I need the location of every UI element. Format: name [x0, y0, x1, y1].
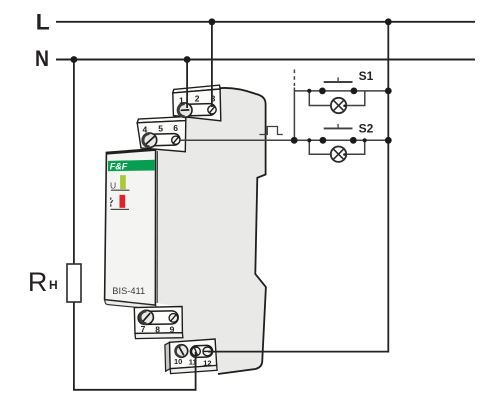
- terminal slot 4-6: [143, 133, 180, 146]
- lamp E2 (S2 indicator): [331, 147, 346, 162]
- green LED bar: [120, 175, 126, 189]
- svg-text:N: N: [35, 46, 49, 71]
- node S2 lamp tap left: [307, 138, 311, 142]
- screw terminal 11: [192, 347, 201, 356]
- junction N to terminal 1 riser: [184, 56, 191, 63]
- wire N down to resistor: [73, 60, 75, 265]
- resistor RH (load): [67, 264, 81, 302]
- terminal block 7-8-9: [134, 307, 183, 339]
- S2 contact node left: [320, 137, 327, 144]
- svg-text:12: 12: [203, 358, 211, 367]
- wire lamp S2 loop: [309, 140, 364, 154]
- S1 contact node left: [319, 88, 326, 95]
- screw terminal 1: [178, 103, 192, 117]
- wire S1 branch vertical: [293, 88, 295, 141]
- junction S2 row to L riser: [385, 137, 392, 144]
- S1 contact node right: [351, 88, 358, 95]
- svg-text:S1: S1: [359, 69, 374, 83]
- red LED bar: [120, 195, 126, 208]
- dashed continuation wire: [293, 70, 295, 87]
- switch S2 (push button): [320, 124, 357, 144]
- underline under U LED: [111, 190, 129, 191]
- terminal slot 7-9: [138, 311, 178, 325]
- node S1 lamp tap: [307, 89, 311, 93]
- wire N to terminal 1: [186, 60, 188, 109]
- screw terminal 10: [175, 345, 188, 358]
- svg-text:8: 8: [155, 324, 160, 334]
- wire N line: [56, 59, 475, 61]
- screw terminal 4: [142, 133, 156, 147]
- svg-text:6: 6: [173, 123, 178, 133]
- svg-text:9: 9: [170, 325, 175, 335]
- terminal slot 1-3: [181, 103, 216, 116]
- wire L down right side to terminal 12: [208, 22, 388, 352]
- screw terminal 3: [208, 106, 216, 114]
- screw terminal 6: [172, 136, 180, 144]
- svg-text:U: U: [110, 180, 116, 190]
- wire L line: [56, 21, 475, 23]
- wire resistor to terminal 11: [74, 302, 196, 390]
- svg-text:S2: S2: [359, 122, 374, 136]
- screw terminal 12: [203, 347, 212, 356]
- svg-text:7: 7: [141, 324, 146, 334]
- junction L to terminal 3 riser: [209, 18, 216, 25]
- wire lamp S1 loop: [309, 91, 365, 106]
- screw terminal 7: [139, 310, 153, 324]
- terminal block 10-11-12: [165, 339, 217, 374]
- module front-face corner edge: [156, 151, 158, 303]
- svg-text:5: 5: [158, 124, 163, 134]
- svg-text:BIS-411: BIS-411: [112, 286, 145, 296]
- panel top edge band: [106, 150, 155, 154]
- junction S1 row to L riser: [385, 88, 392, 95]
- svg-text:10: 10: [174, 357, 182, 366]
- svg-text:F&F: F&F: [110, 161, 128, 171]
- terminal block 4-5-6: [137, 117, 186, 152]
- wire L to terminal 3: [211, 22, 213, 107]
- junction S2 row to S1 branch: [291, 137, 298, 144]
- wire S1 row: [294, 90, 388, 92]
- module front label panel: [105, 149, 158, 310]
- screw terminal 9: [169, 314, 178, 323]
- svg-text:4: 4: [143, 124, 148, 134]
- junction N to resistor drop: [71, 56, 78, 63]
- svg-text:L: L: [36, 9, 50, 34]
- node S2 lamp tap right: [363, 138, 367, 142]
- svg-text:2: 2: [195, 93, 200, 103]
- svg-text:H: H: [49, 278, 58, 292]
- relay module BIS-411 body (gray side face): [157, 88, 266, 374]
- panel bottom 3D face: [105, 300, 158, 310]
- S2 contact node right: [350, 137, 357, 144]
- switch S1 (push button): [319, 77, 357, 94]
- terminal slot 11-12: [190, 345, 213, 357]
- lamp E1 (S1 indicator): [331, 98, 346, 113]
- pulse signal symbol: [259, 127, 282, 135]
- terminal block 1-2-3: [173, 85, 221, 121]
- underline under red LED: [111, 209, 129, 210]
- svg-text:1: 1: [179, 95, 184, 105]
- green F&F logo bar: [108, 160, 155, 171]
- relay output glyph: [111, 198, 113, 207]
- wire S2 row from terminal 6: [179, 139, 388, 141]
- junction L to right riser: [385, 18, 392, 25]
- svg-text:R: R: [28, 267, 48, 297]
